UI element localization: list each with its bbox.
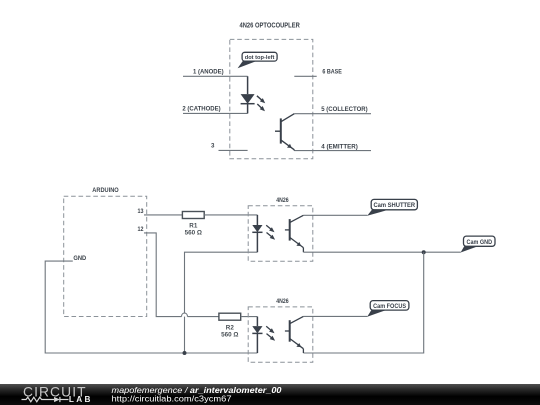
- svg-text:GND: GND: [73, 255, 86, 262]
- svg-text:Cam FOCUS: Cam FOCUS: [373, 303, 406, 310]
- wire pin 12 run: [144, 233, 182, 317]
- wire pin 2: [183, 112, 248, 114]
- svg-text:5 (COLLECTOR): 5 (COLLECTOR): [321, 106, 367, 113]
- light arrows of reference optocoupler: [257, 96, 265, 111]
- svg-text:ARDUINO: ARDUINO: [92, 187, 118, 194]
- flag Cam FOCUS: [367, 301, 409, 317]
- svg-text:6 BASE: 6 BASE: [322, 68, 341, 75]
- svg-text:4 (EMITTER): 4 (EMITTER): [321, 143, 358, 150]
- svg-text:4N26: 4N26: [276, 197, 289, 204]
- svg-text:Cam SHUTTER: Cam SHUTTER: [373, 202, 415, 209]
- wire pin 5: [294, 113, 371, 115]
- wire hop to R2: [188, 316, 219, 318]
- svg-text:13: 13: [138, 208, 144, 215]
- svg-text:4N26 OPTOCOUPLER: 4N26 OPTOCOUPLER: [240, 22, 300, 29]
- wire R1 to opto1 anode: [204, 214, 257, 216]
- svg-text:dot top-left: dot top-left: [245, 55, 275, 61]
- phototransistor of reference optocoupler: [275, 114, 294, 151]
- wire pin 4: [294, 150, 371, 152]
- wire opto2 collector to Cam FOCUS: [303, 315, 367, 317]
- opto1 dashed outline: [248, 206, 313, 261]
- svg-text:R2: R2: [226, 324, 235, 331]
- wire opto1 cathode riser to ground bus: [185, 252, 258, 353]
- wire riser to opto2 emitter: [303, 252, 423, 353]
- svg-text:LAB: LAB: [69, 395, 91, 404]
- wire opto1 collector to Cam SHUTTER: [303, 214, 367, 216]
- opto1 LED: [252, 215, 262, 252]
- CircuitLab logo resistor-diode mark: [22, 397, 69, 402]
- wire opto1 emitter to Cam GND: [303, 251, 460, 253]
- svg-text:http://circuitlab.com/c3ycm67: http://circuitlab.com/c3ycm67: [112, 393, 232, 403]
- opto2 light arrows: [266, 326, 275, 341]
- svg-text:12: 12: [138, 226, 144, 233]
- svg-text:3: 3: [211, 142, 215, 149]
- ARDUINO dashed box: [64, 196, 147, 316]
- svg-text:4N26: 4N26: [276, 298, 289, 305]
- resistor R2: [219, 313, 241, 320]
- flag Cam GND: [461, 236, 495, 252]
- svg-text:Cam GND: Cam GND: [467, 239, 493, 246]
- wire pin 13 to R1: [144, 214, 182, 216]
- wire pin 6: [294, 75, 316, 77]
- LED of reference optocoupler: [241, 76, 255, 113]
- svg-text:560 Ω: 560 Ω: [185, 230, 202, 237]
- flag dot top-left: [238, 52, 278, 68]
- wire GND down to bottom bus: [45, 261, 257, 353]
- opto1 light arrows: [266, 225, 275, 240]
- svg-text:2 (CATHODE): 2 (CATHODE): [182, 105, 220, 112]
- optocoupler U-ref dashed outline: [230, 39, 313, 158]
- svg-text:R1: R1: [189, 223, 198, 230]
- wire R2 to opto2 anode: [241, 316, 258, 318]
- wire pin 3: [219, 149, 248, 151]
- wire hop pin12 over riser: [182, 313, 188, 317]
- wire pin 1: [183, 75, 248, 77]
- junction on ground bus: [183, 351, 187, 355]
- svg-text:1 (ANODE): 1 (ANODE): [193, 68, 224, 75]
- opto1 phototransistor: [285, 215, 304, 252]
- resistor R1: [182, 212, 204, 219]
- opto2 LED: [252, 317, 262, 353]
- svg-text:560 Ω: 560 Ω: [221, 331, 238, 338]
- flag Cam SHUTTER: [367, 199, 417, 215]
- opto2 dashed outline: [248, 307, 313, 362]
- opto2 phototransistor: [285, 316, 304, 353]
- junction Cam GND riser: [422, 250, 426, 254]
